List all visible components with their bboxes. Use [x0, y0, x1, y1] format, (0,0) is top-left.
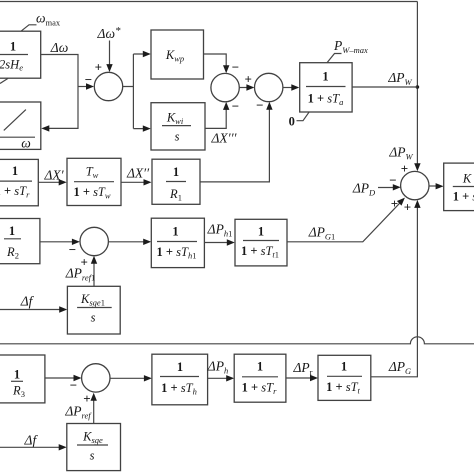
- svg-text:+: +: [83, 391, 90, 406]
- svg-text:−: −: [70, 378, 77, 393]
- summing S3: [255, 73, 283, 101]
- svg-text:1 + sTt: 1 + sTt: [326, 380, 360, 396]
- block B3 1/(1+sTr) row2: [0, 159, 38, 205]
- wire R1 to S3: [200, 107, 269, 182]
- block B9 1/R2: [0, 219, 40, 264]
- block B8 1/(1+sTa): [300, 63, 352, 112]
- block B16 1/(1+sTt): [318, 355, 371, 400]
- svg-text:+: +: [95, 60, 102, 75]
- limiter label PW-max: [327, 54, 342, 63]
- wire B17 to S6: [93, 398, 95, 424]
- svg-text:1: 1: [177, 360, 183, 374]
- wire S1 output split: [123, 54, 146, 129]
- block B14 1/(1+sTh): [152, 354, 208, 405]
- wire feedback line with hop: [0, 337, 474, 344]
- svg-text:1: 1: [322, 70, 328, 84]
- svg-text:1 + sTr: 1 + sTr: [242, 381, 277, 397]
- block B10 1/(1+sTh1): [151, 218, 204, 267]
- svg-text:1: 1: [173, 165, 179, 179]
- summing S6: [82, 364, 110, 392]
- wire S6 to B14: [110, 377, 147, 379]
- svg-text:1: 1: [172, 225, 178, 239]
- wire B8 output dPW: [352, 86, 417, 88]
- svg-text:1: 1: [10, 40, 16, 54]
- svg-text:1: 1: [12, 164, 18, 178]
- wire R3 to S6: [45, 377, 76, 379]
- wire S5 to B10: [108, 241, 146, 243]
- svg-text:1: 1: [341, 360, 347, 374]
- svg-text:0: 0: [289, 115, 295, 129]
- block B2 slope/omega: [0, 102, 41, 149]
- svg-text:1 + sTa: 1 + sTa: [308, 92, 344, 108]
- svg-text:Δω: Δω: [50, 40, 68, 55]
- summing S5: [80, 227, 108, 255]
- block B7 Kwi/s: [151, 103, 205, 150]
- svg-text:1: 1: [258, 225, 264, 239]
- summing S4: [401, 171, 429, 199]
- block B18 K/(1+s..): [444, 163, 474, 211]
- node junction dot dPW: [416, 85, 420, 89]
- block B1 1/2sHe: [0, 31, 41, 78]
- svg-text:ΔPr: ΔPr: [292, 360, 312, 377]
- svg-text:Δf: Δf: [24, 433, 39, 448]
- svg-text:ΔX′′: ΔX′′: [126, 166, 150, 181]
- block B4 Tw/(1+sTw): [67, 158, 121, 205]
- wire branch into S1: [78, 86, 89, 88]
- svg-text:ω: ω: [21, 136, 31, 151]
- summing S2: [211, 73, 239, 101]
- svg-text:+: +: [244, 72, 251, 87]
- block B5 1/R1: [152, 159, 200, 204]
- svg-text:−: −: [69, 242, 76, 257]
- block B15 1/(1+sTr): [234, 354, 286, 402]
- wire B12 to S5: [93, 261, 95, 286]
- svg-text:s: s: [91, 311, 96, 325]
- block B13 1/R3: [0, 355, 45, 403]
- block B17 Ksge/s: [67, 424, 121, 471]
- svg-text:Δf: Δf: [20, 294, 35, 309]
- svg-text:s: s: [175, 130, 180, 144]
- svg-text:1: 1: [14, 368, 20, 382]
- wire R2 to S5: [40, 241, 75, 243]
- block B12 Ksge1/s: [67, 286, 120, 334]
- limiter label wmax: [21, 25, 37, 31]
- svg-text:−: −: [232, 60, 239, 75]
- svg-text:s: s: [90, 449, 95, 463]
- svg-text:1: 1: [9, 224, 15, 238]
- svg-text:K: K: [462, 172, 472, 186]
- block B6 Kwp: [151, 30, 204, 79]
- svg-text:+: +: [401, 161, 408, 176]
- svg-text:1 + sTr: 1 + sTr: [0, 184, 30, 200]
- wire dW output: [41, 55, 78, 129]
- summing S1: [94, 72, 122, 100]
- svg-text:1 + sTh: 1 + sTh: [161, 381, 197, 397]
- wire Kwi to S2: [205, 107, 226, 128]
- wire top border: [0, 1, 417, 3]
- wire vertical dPW feed to summing S4: [416, 2, 418, 167]
- limiter tick lower: [0, 78, 8, 83]
- wire S2 to S3: [239, 87, 249, 89]
- wire S3 to B8: [283, 87, 294, 89]
- svg-text:1: 1: [257, 360, 263, 374]
- svg-text:+: +: [404, 199, 411, 214]
- svg-text:1 + s: 1 + s: [453, 190, 474, 204]
- svg-text:−: −: [256, 98, 263, 113]
- wire S4 output: [429, 185, 438, 187]
- block B11 1/(1+sTt1): [235, 219, 287, 266]
- svg-text:ΔX′′′: ΔX′′′: [210, 131, 237, 146]
- svg-text:−: −: [85, 72, 92, 87]
- wire Kwp to S2: [204, 54, 227, 68]
- svg-text:−: −: [232, 99, 239, 114]
